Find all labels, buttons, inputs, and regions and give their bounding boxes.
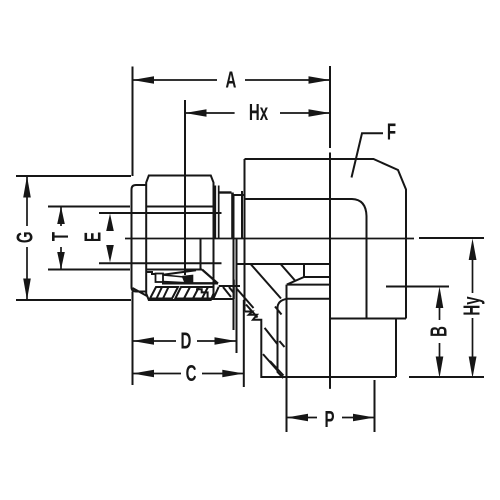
step outline under nut [196,289,208,299]
dimension Hx arrows [185,109,207,117]
dimension G arrows [23,176,31,198]
dimension D right extension [236,300,238,353]
port wall hatch strokes [246,305,258,318]
elbow body outline (external, top) [245,159,407,319]
port counterbore chamfer [287,277,304,285]
svg-text:P: P [324,407,334,433]
dimension C line [133,373,182,375]
svg-text:B: B [426,326,452,337]
svg-text:T: T [48,232,74,241]
centerline stub below port [329,378,331,389]
nut collar (left washer face) [132,185,147,292]
dimension E extension lines (tube bore lines) [99,212,222,214]
dimension P line [287,417,318,419]
body male thread strip (section) [219,285,240,287]
dimension P right extension [374,380,376,432]
port bottom face [262,376,396,378]
svg-text:Hy: Hy [459,296,485,315]
svg-text:Hx: Hx [249,100,268,126]
nut nose section piece 1 [150,287,178,299]
nut hex edge lines [146,206,213,208]
dimension G extension lines [16,175,131,177]
ferrule tail lines [163,275,184,277]
bore line at nut (thick) [162,282,218,284]
nut hex silhouette [146,176,213,301]
svg-text:C: C [186,361,197,387]
svg-text:G: G [12,231,38,243]
svg-text:A: A [226,67,237,93]
socket bore lower line [237,263,331,265]
back ferrule (small square) [156,274,164,283]
horizontal centerline of left leg [125,238,414,240]
dimension G line [26,176,28,226]
body seat cone (section) [202,270,218,284]
nut wall section lower diagonal [133,288,148,296]
dimension Hy line [472,257,474,293]
thread band serration ticks [275,307,282,315]
counterbore lines [303,264,305,277]
second crest step [234,194,245,196]
tube end face (section) [200,239,202,271]
dimension A extension line left [132,67,134,177]
body male thread crest [219,191,232,193]
body inner bore top line with corner arc [245,199,367,319]
dimension B top extension (thread depth) [386,286,449,288]
dimension B line [439,305,441,320]
dimension T arrows [57,207,65,225]
dimension T extension lines [48,206,130,208]
nut internal cone line [163,270,196,275]
svg-text:D: D [181,328,192,354]
nut nose step [147,272,156,274]
C extension line [243,300,245,387]
dimension A arrows [133,76,155,84]
nut thread crest diagonal [214,287,219,299]
dimension Hy top extension [419,237,484,239]
thread minor line / P left extension [286,285,288,432]
dimension E line arrows [106,214,114,232]
sleeve visible between nut and body [214,186,216,239]
thread major line [278,299,287,378]
nut nose section piece 2 [175,287,213,299]
web hatch strokes [237,289,254,308]
dimension T line [60,207,62,227]
centerline of vertical port (A right extension) [329,66,331,148]
svg-text:E: E [80,232,106,242]
dimension C left extension [132,292,134,386]
dimension Hx line [185,112,235,114]
dimension D line [133,340,177,342]
boss shoulder step [331,318,406,320]
dark bar between thread and body [231,193,234,239]
F label leader line [352,133,384,177]
body counterbore face pair [233,194,235,330]
dimension A line [133,79,218,81]
port left outer wall with thread runout steps [245,312,261,379]
body left edge [244,159,246,312]
front ferrule (filled wedge) [183,276,192,283]
bottom extension shared B/Hy [409,376,484,378]
dimension Hx extension line left [184,100,186,275]
thread end face [241,191,243,239]
svg-text:F: F [387,119,396,145]
